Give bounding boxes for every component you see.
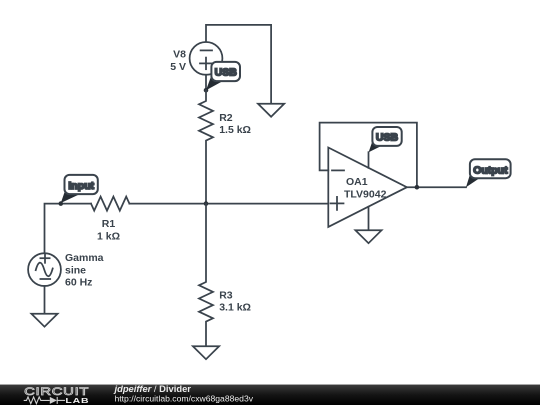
ground below R3 [193,346,219,359]
flag Output [466,159,511,187]
wire op-amp V+ pin [368,152,370,168]
node USB net at V8 [204,88,209,93]
svg-text:Input: Input [68,180,94,192]
resistor R3 [199,204,213,347]
flag USB (V8) text [215,67,238,79]
voltage source V8 [190,42,223,75]
op-amp OA1 [328,148,407,227]
label V8 value [170,49,186,73]
footer bar [0,385,540,405]
flag Input [61,175,98,203]
logo CIRCUIT [24,385,89,398]
flag USB (op-amp) text [376,131,399,143]
label OA1 value [344,176,387,200]
svg-text:60 Hz: 60 Hz [65,277,92,289]
ground below sine source [31,314,57,327]
flag Output text [473,164,508,176]
label R2 value [219,112,251,136]
svg-text:USB: USB [215,67,238,79]
svg-text:sine: sine [65,264,86,276]
svg-text:V8: V8 [173,49,186,61]
svg-text:5 V: 5 V [170,61,186,73]
svg-text:jdpeiffer / Divider: jdpeiffer / Divider [114,383,192,394]
resistor R1 [91,197,129,211]
svg-text:R3: R3 [219,289,233,301]
svg-text:USB: USB [376,131,399,143]
label Gamma sine value [65,252,104,289]
footer author / title [114,383,192,394]
node output [415,185,420,190]
wire output [407,186,466,188]
wire op-amp V- pin [368,207,370,230]
svg-text:LAB: LAB [65,396,89,404]
svg-text:Output: Output [473,164,508,176]
resistor R2 [199,90,213,203]
label R3 value [219,289,251,313]
logo resistor-diode-LAB row [24,397,65,404]
source V1 Gamma sine [28,253,61,286]
node mid junction [204,201,209,206]
svg-text:R1: R1 [102,218,116,230]
svg-text:TLV9042: TLV9042 [344,188,387,200]
wire main horizontal right [129,203,328,205]
svg-text:R2: R2 [219,112,233,124]
wire feedback loop [320,123,417,188]
svg-text:OA1: OA1 [346,176,368,188]
flag Input text [68,180,94,192]
ground top-right [258,104,284,117]
svg-text:http://circuitlab.com/cxw68ga8: http://circuitlab.com/cxw68ga88ed3v [115,394,254,404]
svg-text:Gamma: Gamma [65,252,104,264]
svg-text:3.1 kΩ: 3.1 kΩ [219,302,251,314]
svg-text:1.5 kΩ: 1.5 kΩ [219,124,251,136]
wire V8 bottom to node [205,75,207,91]
wire main horizontal left [45,204,92,254]
node Input tail [59,201,64,206]
label R1 value [97,218,120,242]
flag USB (op-amp) [369,127,402,152]
svg-text:1 kΩ: 1 kΩ [97,231,120,243]
ground below op-amp [355,230,381,243]
flag USB (V8) [206,62,240,90]
wire sine source to ground [44,286,46,314]
wire V8 top to ground run [206,25,271,104]
footer url [115,394,254,404]
